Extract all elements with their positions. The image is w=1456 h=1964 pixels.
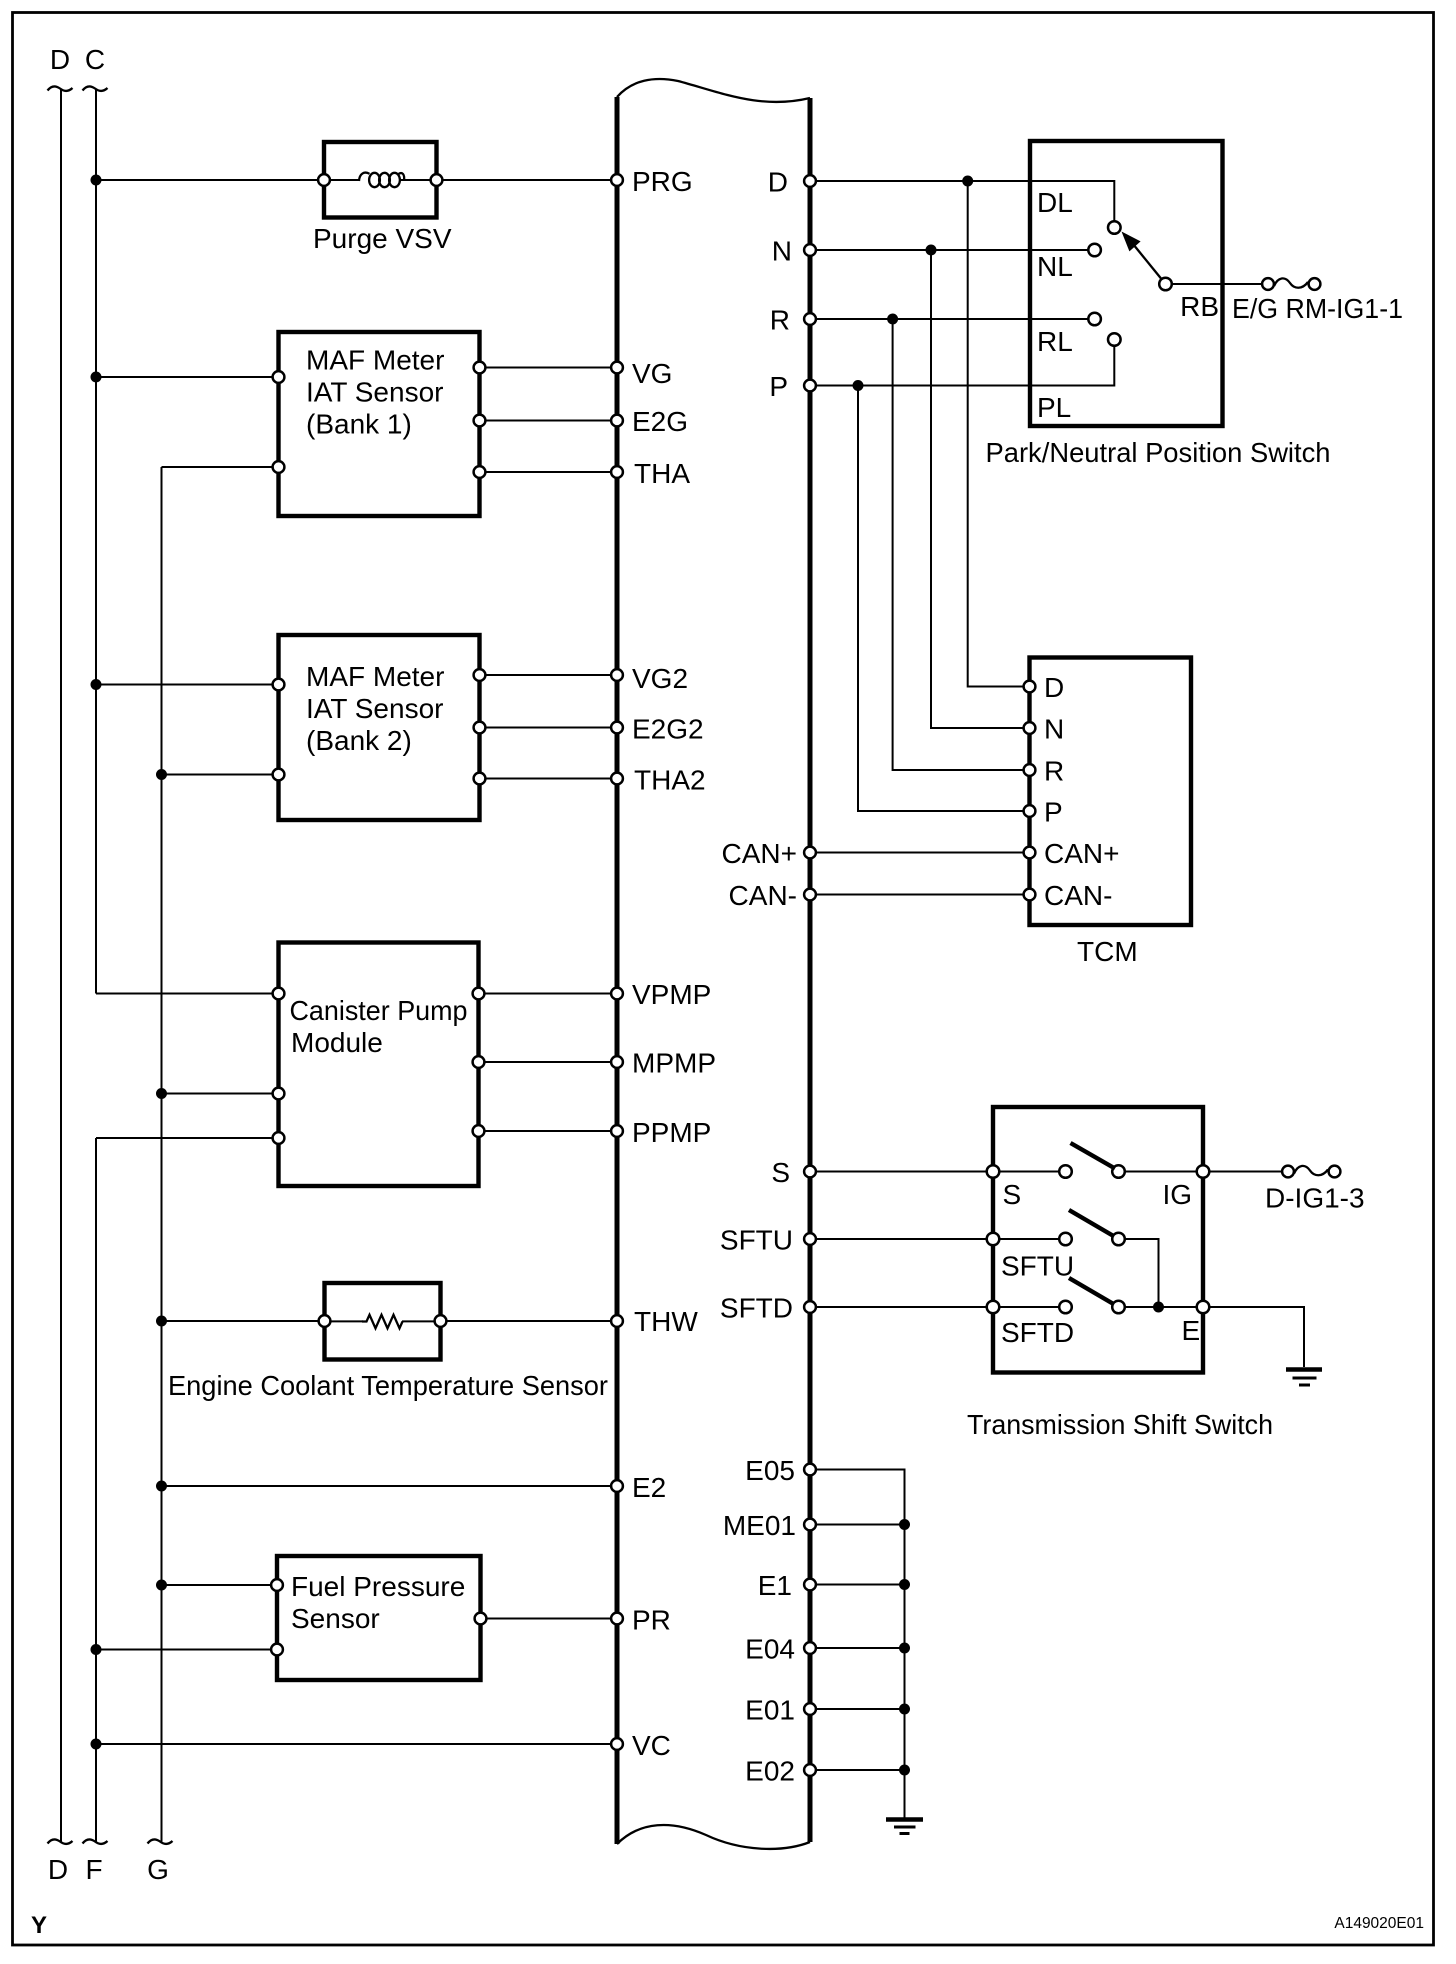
svg-text:R: R <box>770 305 790 336</box>
sensor Fuel Pressure Sensor box <box>277 1556 481 1680</box>
contact S left <box>1059 1165 1072 1178</box>
break symbol on wire C top <box>83 86 108 90</box>
svg-text:S: S <box>771 1157 790 1188</box>
ECM connector left edge <box>615 97 620 1844</box>
wire RB to connector break <box>1166 283 1269 285</box>
pin E1 <box>804 1579 816 1591</box>
terminal Fuel sensor left top <box>271 1579 283 1591</box>
wire Canister PPMP to ECM <box>479 1130 618 1132</box>
terminal MAF1 left supply <box>273 371 285 383</box>
svg-text:(Bank 1): (Bank 1) <box>306 409 412 440</box>
contact SFTU right <box>1112 1233 1125 1246</box>
contact NL <box>1088 244 1101 257</box>
terminal Canister MPMP <box>473 1056 485 1068</box>
wire inside Purge VSV left stub <box>324 179 360 181</box>
wire S contact to IG terminal <box>1119 1171 1282 1173</box>
junction on P row for TCM branch <box>853 380 864 391</box>
wire C to MAF1 (VG supply row) <box>96 376 279 378</box>
svg-text:RB: RB <box>1180 291 1219 322</box>
svg-text:CAN-: CAN- <box>729 880 797 911</box>
terminal Purge VSV right <box>431 174 443 186</box>
wire D vertical <box>60 90 62 1842</box>
wire F corner from Canister Pump Module row3 <box>96 1137 279 1139</box>
svg-text:E2G2: E2G2 <box>632 714 704 745</box>
blade SFTD <box>1069 1278 1114 1304</box>
pin CAN- <box>804 889 816 901</box>
pin S <box>804 1166 816 1178</box>
terminal MAF1 THA <box>474 466 486 478</box>
wire ECM ME01 to ground bus <box>810 1524 905 1526</box>
break symbol on wire D bottom <box>48 1839 73 1843</box>
pin SFTU <box>804 1233 816 1245</box>
svg-text:SFTU: SFTU <box>720 1225 793 1256</box>
junction on R row for TCM branch <box>887 314 898 325</box>
wire C to MAF2 (VG2 supply row) <box>96 684 279 686</box>
switch blade RB to DL <box>1133 244 1166 284</box>
ground symbol at ECM ground bus <box>886 1817 923 1822</box>
svg-text:MAF Meter: MAF Meter <box>306 345 444 376</box>
junction on wire G at THW row <box>156 1316 167 1327</box>
wire C to Purge VSV (PRG row) <box>96 179 324 181</box>
connector break E/G RM-IG1-1 <box>1262 278 1274 290</box>
pin PPMP <box>611 1125 623 1137</box>
svg-text:D: D <box>50 44 70 75</box>
terminal S on box edge <box>987 1165 1000 1178</box>
svg-text:E2G: E2G <box>632 406 688 437</box>
terminal SFTD on box edge <box>987 1301 1000 1314</box>
svg-text:E01: E01 <box>745 1695 795 1726</box>
svg-text:G: G <box>147 1854 169 1885</box>
wire C corner into Canister Pump Module VPMP row <box>96 993 279 995</box>
pin MPMP <box>611 1056 623 1068</box>
pin D <box>804 175 816 187</box>
connector break D-IG1-3 <box>1282 1166 1294 1178</box>
contact DL <box>1108 221 1121 234</box>
svg-text:Module: Module <box>291 1027 383 1058</box>
wire Fuel Pressure Sensor to ECM pin PR <box>481 1618 618 1620</box>
pin VG2 <box>611 669 623 681</box>
svg-text:SFTU: SFTU <box>1001 1251 1074 1282</box>
terminal ECT right <box>435 1315 447 1327</box>
ECM connector right edge <box>808 98 813 1842</box>
contact S right <box>1112 1165 1125 1178</box>
wire ECT sensor to ECM pin THW <box>441 1320 618 1322</box>
junction E02 <box>899 1765 910 1776</box>
wire branch P to TCM pin P <box>858 386 1030 812</box>
svg-text:E05: E05 <box>745 1455 795 1486</box>
svg-text:CAN+: CAN+ <box>1044 838 1119 869</box>
svg-text:IG: IG <box>1163 1179 1193 1210</box>
terminal Purge VSV left <box>318 174 330 186</box>
terminal Canister PPMP <box>473 1125 485 1137</box>
junction E node <box>1153 1302 1164 1313</box>
pin CAN+ <box>804 847 816 859</box>
break symbol on wire G bottom <box>148 1839 173 1843</box>
contact SFTU left <box>1059 1233 1072 1246</box>
pin VG <box>611 362 623 374</box>
svg-text:E2: E2 <box>632 1472 666 1503</box>
sensor MAF Meter IAT Sensor (Bank 2) box <box>279 635 480 820</box>
svg-text:Engine Coolant Temperature Sen: Engine Coolant Temperature Sensor <box>168 1370 608 1401</box>
solenoid Purge VSV box <box>324 142 437 218</box>
pin TCM D <box>1024 681 1036 693</box>
svg-text:Y: Y <box>31 1912 47 1939</box>
pin E01 <box>804 1703 816 1715</box>
svg-text:Fuel Pressure: Fuel Pressure <box>291 1571 465 1602</box>
break symbol on wire D top <box>48 86 73 90</box>
svg-text:Purge VSV: Purge VSV <box>313 223 452 254</box>
ground symbol at shift switch E <box>1286 1367 1322 1372</box>
wire SFTU contact to E node <box>1119 1239 1159 1307</box>
pin TCM P <box>1024 805 1036 817</box>
wire ECM E1 to ground bus <box>810 1584 905 1586</box>
arrowhead of blade <box>1122 232 1141 252</box>
svg-text:PR: PR <box>632 1605 671 1636</box>
junction E01 <box>899 1704 910 1715</box>
pin THW <box>611 1315 623 1327</box>
pin TCM R <box>1024 764 1036 776</box>
svg-text:E/G RM-IG1-1: E/G RM-IG1-1 <box>1232 293 1403 324</box>
coil inside Purge VSV <box>359 173 370 181</box>
wire MAF1 THA to ECM <box>480 471 618 473</box>
wire G vertical <box>161 467 163 1842</box>
svg-text:DL: DL <box>1037 187 1073 218</box>
junction on wire G at THA2 row <box>156 769 167 780</box>
pin VC <box>611 1738 623 1750</box>
terminal MAF2 E2G2 <box>474 722 486 734</box>
svg-text:SFTD: SFTD <box>1001 1317 1074 1348</box>
wire branch R to TCM pin R <box>893 319 1030 770</box>
wire G corner to MAF1 THA row <box>162 466 279 468</box>
wire ECM E02 to ground bus <box>810 1769 905 1771</box>
wire ECM S to shift switch <box>810 1171 1066 1173</box>
svg-text:D: D <box>768 167 788 198</box>
module TCM box <box>1030 658 1192 926</box>
wire branch D to TCM pin D <box>968 181 1030 687</box>
pin ME01 <box>804 1519 816 1531</box>
wire ECM N to PNP switch NL <box>810 249 1089 251</box>
pin N <box>804 244 816 256</box>
svg-text:D: D <box>48 1854 68 1885</box>
wire G to ECT sensor (THW row) <box>162 1320 325 1322</box>
wire MAF2 VG2 to ECM <box>480 674 618 676</box>
wire inside ECT sensor right stub <box>402 1320 441 1322</box>
svg-text:PPMP: PPMP <box>632 1117 711 1148</box>
junction on wire G at canister row2 <box>156 1088 167 1099</box>
junction on wire F at fuel sensor row <box>91 1644 102 1655</box>
pin E04 <box>804 1642 816 1654</box>
pin R <box>804 313 816 325</box>
switch Park/Neutral Position Switch box <box>1030 141 1223 426</box>
terminal MAF2 THA2 <box>474 773 486 785</box>
svg-text:IAT Sensor: IAT Sensor <box>306 377 443 408</box>
svg-text:(Bank 2): (Bank 2) <box>306 725 412 756</box>
terminal MAF2 VG2 <box>474 669 486 681</box>
pin TCM CAN+ <box>1024 847 1036 859</box>
terminal MAF2 left supply <box>273 679 285 691</box>
svg-text:VPMP: VPMP <box>632 979 711 1010</box>
wire Canister MPMP to ECM <box>479 1061 618 1063</box>
terminal MAF2 left THA2 <box>273 769 285 781</box>
wire G to ECM pin E2 <box>162 1485 618 1487</box>
pin VPMP <box>611 988 623 1000</box>
break symbol on wire F bottom <box>83 1839 108 1843</box>
svg-text:E: E <box>1182 1315 1201 1346</box>
ECM torn bottom edge <box>617 1825 810 1849</box>
wire ECM CAN- to TCM CAN- <box>810 894 1030 896</box>
wire C vertical (top section) <box>95 90 97 994</box>
wire Canister VPMP to ECM <box>479 993 618 995</box>
junction E04 <box>899 1643 910 1654</box>
pin E2G2 <box>611 722 623 734</box>
contact SFTD right <box>1112 1301 1125 1314</box>
junction E1 <box>899 1579 910 1590</box>
wire inside Purge VSV right stub <box>401 179 437 181</box>
terminal Canister left row1 <box>273 988 285 1000</box>
wire MAF1 VG to ECM <box>480 367 618 369</box>
svg-text:C: C <box>85 44 105 75</box>
pin E05 <box>804 1464 816 1476</box>
wire ECM E04 to ground bus <box>810 1647 905 1649</box>
wire ECM P to PNP switch PL <box>810 347 1114 386</box>
pin E2G <box>611 415 623 427</box>
pin THA <box>611 466 623 478</box>
svg-text:THW: THW <box>634 1306 698 1337</box>
wire F vertical (bottom section) <box>95 1138 97 1842</box>
resistor inside ECT sensor <box>362 1315 403 1329</box>
svg-text:P: P <box>1044 797 1063 828</box>
svg-text:ME01: ME01 <box>723 1510 796 1541</box>
sensor Engine Coolant Temperature Sensor box <box>325 1283 441 1360</box>
blade S <box>1071 1143 1116 1169</box>
terminal IG on box edge <box>1197 1165 1210 1178</box>
svg-text:THA2: THA2 <box>634 765 706 796</box>
sensor MAF Meter IAT Sensor (Bank 1) box <box>279 332 480 516</box>
wire F to Fuel Pressure Sensor bottom <box>96 1649 277 1651</box>
svg-text:Canister Pump: Canister Pump <box>290 995 468 1026</box>
terminal Fuel sensor left bottom <box>271 1644 283 1656</box>
wire G to Fuel Pressure Sensor top <box>162 1584 278 1586</box>
svg-text:S: S <box>1003 1179 1022 1210</box>
junction on wire G at fuel sensor row <box>156 1580 167 1591</box>
svg-text:NL: NL <box>1037 251 1073 282</box>
svg-text:D: D <box>1044 672 1064 703</box>
svg-text:A149020E01: A149020E01 <box>1334 1915 1424 1932</box>
pin TCM N <box>1024 722 1036 734</box>
svg-text:VG: VG <box>632 358 672 389</box>
wire F to ECM pin VC <box>96 1743 617 1745</box>
svg-text:D-IG1-3: D-IG1-3 <box>1265 1183 1365 1214</box>
svg-text:TCM: TCM <box>1077 936 1138 967</box>
junction on D row for TCM branch <box>962 176 973 187</box>
contact SFTD left <box>1059 1301 1072 1314</box>
junction on wire F at VC row <box>91 1739 102 1750</box>
svg-text:THA: THA <box>634 458 690 489</box>
svg-text:SFTD: SFTD <box>720 1293 793 1324</box>
svg-text:E1: E1 <box>758 1570 792 1601</box>
terminal E on box edge <box>1197 1301 1210 1314</box>
contact RB <box>1159 278 1172 291</box>
wire MAF2 E2G2 to ECM <box>480 727 618 729</box>
pin P <box>804 380 816 392</box>
contact RL <box>1088 313 1101 326</box>
svg-text:PRG: PRG <box>632 166 693 197</box>
svg-text:VG2: VG2 <box>632 663 688 694</box>
pin SFTD <box>804 1301 816 1313</box>
junction on wire C at VG2 row <box>91 679 102 690</box>
blade SFTU <box>1069 1210 1114 1236</box>
wire ECM CAN+ to TCM CAN+ <box>810 852 1030 854</box>
svg-text:MPMP: MPMP <box>632 1048 716 1079</box>
wire ECM SFTU to shift switch <box>810 1238 1066 1240</box>
svg-text:PL: PL <box>1037 392 1071 423</box>
svg-text:CAN+: CAN+ <box>722 838 797 869</box>
pin THA2 <box>611 773 623 785</box>
svg-text:MAF Meter: MAF Meter <box>306 661 444 692</box>
svg-text:R: R <box>1044 756 1064 787</box>
terminal Canister left row2 <box>273 1088 285 1100</box>
terminal Fuel sensor right <box>475 1613 487 1625</box>
wire branch N to TCM pin N <box>931 250 1030 728</box>
wire MAF1 E2G to ECM <box>480 420 618 422</box>
wire MAF2 THA2 to ECM <box>480 778 618 780</box>
svg-text:E04: E04 <box>745 1634 795 1665</box>
terminal MAF1 E2G <box>474 415 486 427</box>
svg-text:N: N <box>1044 714 1064 745</box>
svg-text:F: F <box>85 1854 102 1885</box>
svg-text:Sensor: Sensor <box>291 1603 380 1634</box>
junction on wire C at PRG row <box>91 175 102 186</box>
svg-text:P: P <box>769 371 788 402</box>
wire ECM E05 to ground bus <box>810 1470 905 1819</box>
switch Transmission Shift Switch box <box>993 1107 1203 1373</box>
terminal Canister VPMP <box>473 988 485 1000</box>
wire ECM SFTD to shift switch <box>810 1306 1066 1308</box>
svg-text:RL: RL <box>1037 326 1073 357</box>
pin PRG <box>611 174 623 186</box>
wire Purge VSV to ECM pin PRG <box>437 179 618 181</box>
wire ECM R to PNP switch RL <box>810 318 1089 320</box>
wire G to Canister Pump Module row2 <box>162 1093 279 1095</box>
terminal MAF1 left THA <box>273 461 285 473</box>
pin E02 <box>804 1764 816 1776</box>
wire SFTD contact through E junction to ground drop <box>1119 1307 1305 1367</box>
pin TCM CAN- <box>1024 889 1036 901</box>
svg-text:CAN-: CAN- <box>1044 880 1112 911</box>
pin PR <box>611 1613 623 1625</box>
svg-text:IAT Sensor: IAT Sensor <box>306 693 443 724</box>
terminal ECT left <box>319 1315 331 1327</box>
wire ECM E01 to ground bus <box>810 1708 905 1710</box>
ECM torn top edge <box>617 79 810 102</box>
junction on wire C at VG row <box>91 372 102 383</box>
wire inside ECT sensor left stub <box>325 1320 364 1322</box>
wire ECM D to PNP switch DL <box>810 181 1114 221</box>
wire G to MAF2 THA2 row <box>162 774 279 776</box>
junction ME01 <box>899 1519 910 1530</box>
svg-text:N: N <box>772 236 792 267</box>
terminal MAF1 VG <box>474 362 486 374</box>
svg-text:VC: VC <box>632 1730 671 1761</box>
svg-text:Transmission Shift Switch: Transmission Shift Switch <box>967 1409 1273 1440</box>
junction on wire G at E2 row <box>156 1481 167 1492</box>
terminal Canister left row3 <box>273 1132 285 1144</box>
pin E2 <box>611 1480 623 1492</box>
svg-text:Park/Neutral Position Switch: Park/Neutral Position Switch <box>986 437 1331 468</box>
terminal SFTU on box edge <box>987 1233 1000 1246</box>
module Canister Pump Module box <box>279 943 479 1187</box>
junction on N row for TCM branch <box>926 245 937 256</box>
contact PL <box>1108 333 1121 346</box>
svg-text:E02: E02 <box>745 1756 795 1787</box>
